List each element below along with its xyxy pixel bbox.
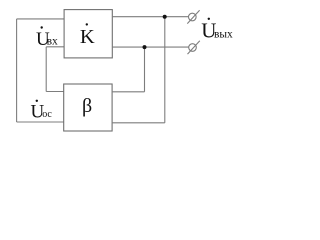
svg-text:ос: ос <box>42 109 52 120</box>
wire beta lower-right <box>112 122 165 124</box>
label K gain of amplifier <box>80 23 95 48</box>
wire bottom rail to beta output <box>17 121 64 123</box>
wire top rail to K input <box>17 18 65 20</box>
output terminal bottom <box>188 41 200 54</box>
svg-text:вых: вых <box>214 28 233 40</box>
wire vertical K to beta left <box>45 47 47 92</box>
wire vertical output to beta upper-right <box>144 47 146 92</box>
label Uvyx output voltage <box>201 18 233 43</box>
label Uoc feedback voltage <box>31 100 53 123</box>
junction dot bottom <box>143 45 147 49</box>
wire K upper-right to output terminal <box>112 16 188 18</box>
junction dot top <box>163 15 167 19</box>
wire beta upper-left <box>46 91 64 93</box>
svg-text:K: K <box>80 26 95 48</box>
svg-text:β: β <box>82 95 92 117</box>
wire K lower-left <box>46 46 64 48</box>
feedback block B1 <box>64 84 112 131</box>
amplifier block K1 <box>64 10 112 58</box>
output terminal top <box>187 10 199 23</box>
wire K lower-right to output terminal <box>112 46 189 48</box>
input loop left vertical wire <box>16 19 18 122</box>
svg-text:вх: вх <box>47 36 58 48</box>
wire vertical output to beta lower-right <box>164 17 166 123</box>
wire beta upper-right <box>112 91 145 93</box>
label Uvx input voltage <box>36 26 58 50</box>
